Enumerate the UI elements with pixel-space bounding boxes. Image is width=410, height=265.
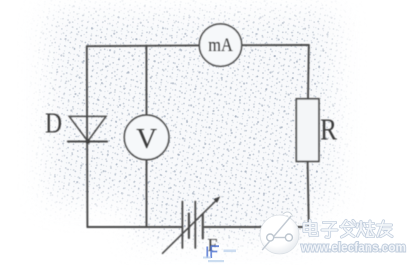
watermark logo ball <box>260 212 299 254</box>
battery plate short 1 <box>188 214 190 239</box>
adjustment arrow head <box>214 196 221 203</box>
wire right branch lower (R to corner) <box>308 161 309 227</box>
svg-text:www.elecfans.com: www.elecfans.com <box>300 241 406 255</box>
svg-text:D: D <box>45 109 62 140</box>
voltmeter V circle <box>124 115 169 160</box>
wire bottom-right segment (battery to corner) <box>205 226 309 228</box>
svg-text:R: R <box>320 112 337 147</box>
wire top-left segment (corner to mA) <box>87 44 200 47</box>
battery plate long 1 <box>181 202 183 249</box>
diode D cathode bar <box>68 141 107 143</box>
wire right branch upper (corner to R) <box>307 45 310 99</box>
adjustment arrow shaft <box>163 200 217 253</box>
junction dot at diode cathode <box>85 139 90 144</box>
wire voltmeter branch upper <box>145 46 147 116</box>
wire bottom-left segment (corner to battery) <box>87 226 182 228</box>
wire top-right segment (mA to corner) <box>242 44 309 46</box>
svg-text:V: V <box>136 123 157 155</box>
watermark chinese characters (dianzi fashaoyou) <box>304 221 392 238</box>
milliammeter mA circle <box>199 24 241 66</box>
wire voltmeter branch lower <box>146 160 148 227</box>
diode D triangle <box>69 116 106 141</box>
light blue smears near F <box>203 250 236 263</box>
battery plate long 2 <box>194 202 196 249</box>
resistor R body <box>296 99 319 162</box>
watermark chinese white core <box>304 221 392 238</box>
battery plate short 2 <box>202 214 204 239</box>
wire left branch (through diode D) <box>86 46 89 227</box>
blue ghost mark near F <box>207 246 219 259</box>
svg-text:mA: mA <box>208 35 233 56</box>
